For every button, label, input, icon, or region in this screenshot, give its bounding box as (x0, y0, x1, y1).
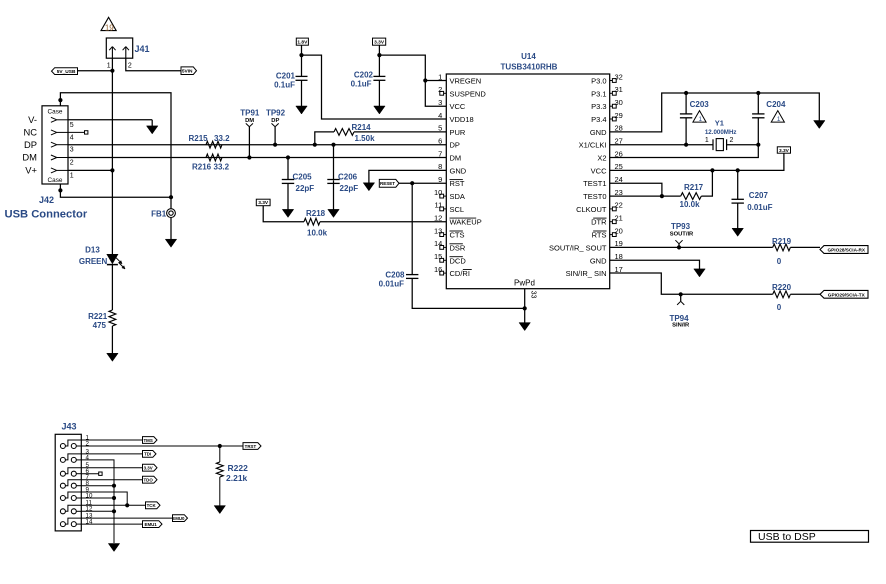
svg-text:TP94: TP94 (669, 314, 689, 323)
no-connect J43 pin6 (81, 473, 98, 475)
pin 21 DTR (610, 221, 613, 223)
svg-text:32: 32 (615, 72, 623, 81)
svg-text:1.50k: 1.50k (355, 134, 376, 143)
pin 14 DSR (444, 246, 447, 248)
wire J41 pin2 to 5VIN (126, 58, 181, 70)
svg-text:0.1uF: 0.1uF (274, 80, 295, 89)
pin 10 SDA (444, 195, 447, 197)
wire 5V_USB to J41 pin1 (78, 70, 113, 72)
junction pin8 gnd (112, 484, 116, 488)
wire V+ to 5V rail (68, 169, 112, 171)
svg-text:DP: DP (24, 139, 37, 150)
svg-text:D13: D13 (85, 246, 100, 255)
capacitor C207 (737, 170, 739, 199)
resistor R219 (773, 244, 791, 251)
svg-text:TCK: TCK (147, 503, 157, 508)
svg-text:SCL: SCL (450, 205, 465, 214)
junction 1.8V (299, 53, 303, 57)
net flag 5VIN (181, 67, 197, 75)
svg-text:5: 5 (438, 124, 442, 133)
pin 2 SUSPEND (444, 92, 447, 94)
svg-text:R220: R220 (772, 283, 792, 292)
svg-text:NC: NC (23, 127, 37, 138)
svg-text:GND: GND (590, 256, 607, 265)
svg-text:P3.1: P3.1 (591, 89, 606, 98)
svg-text:PUR: PUR (450, 128, 466, 137)
junction at J41 pin1 (110, 69, 114, 73)
svg-text:TP93: TP93 (671, 222, 691, 231)
svg-text:DP: DP (271, 118, 279, 124)
svg-text:1: 1 (705, 137, 709, 144)
svg-text:VDD18: VDD18 (450, 115, 474, 124)
test point TP91 (248, 127, 250, 158)
svg-text:1: 1 (70, 172, 74, 179)
pin 16 CD/RI (444, 272, 447, 274)
junction pin12 gnd (112, 509, 116, 513)
ground PwPd (524, 308, 526, 323)
wire 3.3V to R218 (263, 206, 304, 222)
net flag EMU0 (173, 515, 188, 522)
svg-text:21: 21 (615, 214, 623, 223)
svg-text:SUSPEND: SUSPEND (450, 89, 487, 98)
junction C206 DP (331, 143, 335, 147)
svg-text:R221: R221 (88, 312, 108, 321)
svg-text:33: 33 (530, 291, 537, 299)
svg-text:X1/CLKI: X1/CLKI (579, 141, 607, 150)
svg-text:15: 15 (434, 252, 442, 261)
svg-text:3.3V: 3.3V (374, 39, 385, 45)
net flag GPIO28/SCIA-RX (820, 246, 868, 254)
svg-text:TEST1: TEST1 (583, 179, 606, 188)
svg-text:RTS: RTS (592, 231, 607, 240)
svg-text:R219: R219 (772, 237, 792, 246)
ground C206 (333, 180, 335, 210)
svg-text:5V_USB: 5V_USB (57, 69, 76, 75)
resistor R220 (773, 291, 791, 298)
svg-text:V-: V- (28, 114, 37, 125)
capacitor C201 (301, 55, 303, 76)
off-page reference triangle 19 (101, 17, 116, 30)
wire DM net (68, 157, 446, 159)
net flag 5V_USB (52, 68, 78, 75)
wire J43 pin4 ground rail (81, 460, 114, 543)
svg-text:0.01uF: 0.01uF (379, 280, 404, 289)
svg-text:5VIN: 5VIN (182, 69, 193, 75)
pin 30 P3.3 (610, 105, 613, 107)
junction R217 VCC (710, 168, 714, 172)
svg-text:P3.4: P3.4 (591, 115, 606, 124)
connector J41 (106, 38, 132, 58)
net flag TRST (243, 443, 261, 450)
op-amp U14 TUSB3410RHB (446, 74, 609, 289)
svg-text:TP91: TP91 (240, 109, 260, 118)
wire J43 pin12 (81, 510, 114, 512)
net flag TCK (146, 502, 161, 509)
junction C204 X2 (756, 143, 760, 147)
wire J43 pin11 TCK (81, 504, 145, 506)
svg-text:10: 10 (434, 188, 442, 197)
svg-text:1: 1 (107, 63, 111, 70)
svg-text:C208: C208 (385, 270, 405, 279)
svg-text:RESET: RESET (380, 181, 395, 186)
junction R214 DP (313, 143, 317, 147)
svg-text:16: 16 (434, 265, 442, 274)
wire 5V rail (111, 71, 113, 255)
svg-text:J41: J41 (135, 44, 150, 54)
svg-text:0: 0 (777, 303, 782, 312)
svg-text:C205: C205 (293, 172, 313, 181)
svg-text:2: 2 (70, 160, 74, 167)
capacitor C205 (287, 158, 289, 180)
junction RESET C208 (410, 181, 414, 185)
svg-text:SOUT/IR_ SOUT: SOUT/IR_ SOUT (549, 243, 607, 252)
svg-text:2: 2 (128, 63, 132, 70)
pin 15 DCD (444, 259, 447, 261)
svg-text:CD/RI: CD/RI (450, 269, 470, 278)
junction V+ rail (110, 168, 114, 172)
svg-text:CLKOUT: CLKOUT (576, 205, 607, 214)
svg-text:5: 5 (70, 122, 74, 129)
svg-text:13: 13 (434, 226, 442, 235)
svg-text:SOUT/IR: SOUT/IR (670, 232, 694, 238)
ground C201 (301, 80, 303, 107)
svg-text:R214: R214 (352, 123, 372, 132)
svg-text:EMU1: EMU1 (145, 522, 158, 527)
pin 33 PwPd stub (524, 289, 526, 309)
wire LED to R221 (111, 265, 113, 310)
capacitor C206 (333, 145, 335, 180)
pin 32 P3.0 (610, 80, 613, 82)
svg-text:2: 2 (730, 137, 734, 144)
ground cap rail (814, 121, 825, 129)
svg-text:22: 22 (615, 201, 623, 210)
svg-text:R218: R218 (306, 209, 326, 218)
net flag GPIO29/SCIA-TX (820, 290, 868, 298)
power flag 3.3V right (777, 147, 790, 153)
svg-text:DM: DM (450, 154, 462, 163)
svg-text:CTS: CTS (450, 231, 465, 240)
LED D13 GREEN (107, 254, 118, 263)
wire J43 pin5 3.3V (81, 467, 142, 469)
svg-text:DCD: DCD (450, 256, 467, 265)
svg-text:TMS: TMS (144, 438, 153, 443)
ground C207 (737, 203, 739, 229)
junction shield bottom (58, 188, 62, 192)
svg-text:14: 14 (434, 239, 442, 248)
ground C202 (378, 80, 380, 107)
ground R222 (214, 506, 225, 514)
ground GND pin8 (363, 183, 374, 191)
junction VREGEN (423, 78, 427, 82)
net flag TDO (143, 476, 158, 483)
svg-text:C204: C204 (766, 100, 786, 109)
net flag EMU1 (143, 521, 163, 528)
power flag 3.3V top (373, 38, 386, 45)
svg-text:U14: U14 (521, 52, 536, 61)
svg-text:P3.3: P3.3 (591, 102, 606, 111)
ground R221 (107, 353, 118, 361)
title box USB to DSP (751, 531, 869, 543)
crystal Y1 12.000MHz (610, 144, 713, 146)
svg-text:USB Connector: USB Connector (5, 209, 88, 221)
svg-text:22pF: 22pF (296, 184, 315, 193)
svg-text:3.3V: 3.3V (144, 466, 153, 471)
resistor R221 (109, 310, 116, 326)
svg-text:J43: J43 (62, 422, 77, 432)
wire GND pin8 (369, 170, 446, 183)
wire J43 pin1 TMS (81, 439, 142, 441)
capacitor C203 (685, 93, 687, 114)
svg-text:R216: R216 (192, 163, 212, 172)
svg-text:R215: R215 (189, 134, 209, 143)
svg-text:TUSB3410RHB: TUSB3410RHB (501, 63, 558, 72)
svg-text:SDA: SDA (450, 192, 465, 201)
svg-text:DSR: DSR (450, 243, 466, 252)
ground FB1 (165, 239, 176, 247)
test point TP93 (678, 244, 680, 248)
svg-text:10.0k: 10.0k (680, 200, 701, 209)
wire V- to ground (68, 119, 152, 121)
wire GND pin18 (610, 260, 700, 269)
wire R221 to ground (111, 326, 113, 354)
wire J43 pin10 (81, 497, 114, 499)
svg-text:0.01uF: 0.01uF (747, 203, 772, 212)
svg-text:TP92: TP92 (266, 109, 286, 118)
resistor R222 (219, 446, 221, 462)
pin 29 P3.4 (610, 118, 613, 120)
power flag 1.8V (296, 38, 308, 45)
svg-text:SIN/IR_ SIN: SIN/IR_ SIN (566, 269, 607, 278)
svg-text:C203: C203 (690, 100, 710, 109)
ground C205 (287, 183, 289, 210)
svg-text:1.8V: 1.8V (297, 39, 308, 45)
wire shield top rail (60, 93, 171, 209)
svg-text:2.21k: 2.21k (226, 473, 248, 483)
svg-text:VREGEN: VREGEN (450, 77, 482, 86)
wire GND pin28 to cap rail (610, 93, 820, 132)
svg-text:EMU0: EMU0 (172, 516, 185, 521)
svg-text:X2: X2 (597, 154, 606, 163)
svg-text:20: 20 (615, 226, 623, 235)
svg-text:C207: C207 (749, 191, 769, 200)
svg-text:31: 31 (615, 85, 623, 94)
svg-text:3.3V: 3.3V (779, 148, 790, 154)
svg-text:R217: R217 (684, 183, 704, 192)
resistor R216 (206, 154, 222, 161)
svg-text:22pF: 22pF (340, 184, 359, 193)
wire 3.3V net to VREGEN and VCC (378, 45, 380, 55)
net flag TDI (143, 451, 157, 458)
wire SOUT pin19 (610, 246, 773, 248)
svg-text:12: 12 (434, 214, 442, 223)
svg-text:C201: C201 (276, 71, 296, 80)
svg-text:3.3V: 3.3V (258, 200, 269, 206)
svg-text:USB to DSP: USB to DSP (758, 531, 816, 543)
junction TP92 DP (273, 143, 277, 147)
svg-text:19: 19 (105, 23, 114, 32)
wire 3.3V to VCC pin25 (610, 153, 784, 170)
wire J43 pin9 TCK join (81, 492, 127, 505)
svg-text:4: 4 (70, 134, 74, 141)
svg-text:475: 475 (93, 321, 107, 330)
svg-text:Y1: Y1 (715, 118, 724, 127)
junction C203 X1 (684, 143, 688, 147)
svg-text:VCC: VCC (450, 102, 466, 111)
pin 13 CTS (444, 234, 447, 236)
wire RESET to RST (399, 182, 446, 184)
junction PwPd (523, 306, 527, 310)
ground GND pin18 (694, 269, 705, 277)
ground J43 (108, 544, 119, 552)
junction FB1 top (169, 195, 173, 199)
ground V- (151, 120, 153, 127)
junction C204 top (756, 91, 760, 95)
pin 11 SCL (444, 208, 447, 210)
svg-text:TEST0: TEST0 (583, 192, 606, 201)
junction shield top (58, 98, 62, 102)
svg-text:3: 3 (70, 147, 74, 154)
svg-text:DM: DM (245, 118, 254, 124)
svg-text:29: 29 (615, 111, 623, 120)
pin 22 CLKOUT (610, 208, 613, 210)
warning triangle C203 (693, 111, 706, 123)
warning triangle C204 (771, 111, 784, 123)
svg-text:33.2: 33.2 (214, 163, 230, 172)
svg-text:DM: DM (22, 152, 37, 163)
svg-text:J42: J42 (39, 195, 54, 205)
net flag TMS (143, 437, 158, 444)
junction R222 (218, 444, 222, 448)
svg-text:TDI: TDI (144, 452, 151, 457)
svg-text:30: 30 (615, 98, 623, 107)
svg-text:FB1: FB1 (151, 209, 167, 218)
svg-text:7: 7 (438, 149, 442, 158)
svg-text:6: 6 (438, 137, 442, 146)
test point TP92 (274, 127, 276, 145)
pin 20 RTS (610, 234, 613, 236)
svg-text:DTR: DTR (591, 218, 607, 227)
svg-text:C202: C202 (354, 70, 374, 79)
svg-text:TRST: TRST (245, 444, 257, 449)
svg-text:11: 11 (435, 201, 443, 210)
resistor R215 (206, 141, 222, 148)
wire shield bottom (60, 184, 171, 197)
svg-text:PwPd: PwPd (514, 279, 535, 288)
svg-text:RST: RST (450, 179, 465, 188)
svg-text:GREEN: GREEN (79, 257, 108, 266)
wire J41 pin1 (111, 58, 113, 70)
junction C203 top (684, 91, 688, 95)
ferrite bead FB1 (167, 209, 176, 218)
connector J42 (42, 106, 68, 184)
svg-text:DP: DP (450, 141, 460, 150)
resistor R218 (304, 218, 320, 225)
wire J43 pin14 EMU1 (81, 523, 142, 525)
capacitor C202 (378, 55, 380, 76)
wire FB1 to ground (170, 218, 172, 240)
svg-text:VCC: VCC (591, 166, 607, 175)
svg-text:P3.0: P3.0 (591, 77, 606, 86)
junction TP93 (677, 245, 681, 249)
svg-text:GPIO29/SCIA-TX: GPIO29/SCIA-TX (828, 293, 866, 298)
junction 3.3V (377, 53, 381, 57)
svg-text:GPIO28/SCIA-RX: GPIO28/SCIA-RX (828, 248, 866, 253)
svg-text:0.1uF: 0.1uF (351, 79, 372, 88)
svg-text:GND: GND (450, 166, 467, 175)
svg-text:0: 0 (777, 257, 782, 266)
svg-text:2: 2 (438, 85, 442, 94)
wire SIN pin17 (610, 273, 773, 294)
junction C205 DM (286, 155, 290, 159)
svg-text:10.0k: 10.0k (307, 228, 328, 237)
svg-text:R222: R222 (228, 463, 249, 473)
wire J43 pin2 TRST (81, 445, 243, 447)
net flag RESET (379, 179, 399, 187)
pin 31 P3.1 (610, 92, 613, 94)
wire C208 to PwPd (412, 278, 525, 308)
no-connect NC pin (68, 131, 85, 133)
svg-text:12.000MHz: 12.000MHz (705, 129, 737, 136)
svg-text:WAKEUP: WAKEUP (450, 218, 482, 227)
svg-text:V+: V+ (25, 165, 37, 176)
capacitor C208 (411, 183, 413, 274)
wire J43 pin13 EMU0 (81, 517, 172, 519)
junction TP94 (679, 292, 683, 296)
resistor R217 (610, 183, 662, 196)
svg-text:SIN/IR: SIN/IR (672, 323, 690, 329)
capacitor C204 (757, 93, 759, 114)
wire 1.8V net to VDD18 (301, 45, 303, 55)
svg-text:GND: GND (590, 128, 607, 137)
wire X2 (610, 145, 759, 158)
junction pin10 gnd (112, 496, 116, 500)
svg-text:Case: Case (48, 177, 63, 184)
svg-text:C206: C206 (338, 172, 358, 181)
svg-text:33.2: 33.2 (214, 134, 230, 143)
junction TP91 DM (247, 155, 251, 159)
junction TCK (125, 503, 129, 507)
svg-text:Case: Case (48, 109, 63, 116)
svg-text:1: 1 (777, 116, 781, 123)
junction C207 VCC (736, 168, 740, 172)
test point TP94 (680, 294, 682, 301)
svg-text:1: 1 (699, 116, 703, 123)
net flag 3.3V J43 (143, 464, 158, 471)
wire J43 pin7 TDO (81, 479, 142, 481)
wire J43 pin8 (81, 485, 114, 487)
power flag 3.3V mid (256, 199, 270, 206)
wire J43 pin3 TDI (81, 453, 142, 455)
resistor R214 (315, 132, 334, 145)
svg-text:9: 9 (438, 175, 442, 184)
svg-text:TDO: TDO (144, 478, 154, 483)
wire DP net (68, 144, 446, 146)
